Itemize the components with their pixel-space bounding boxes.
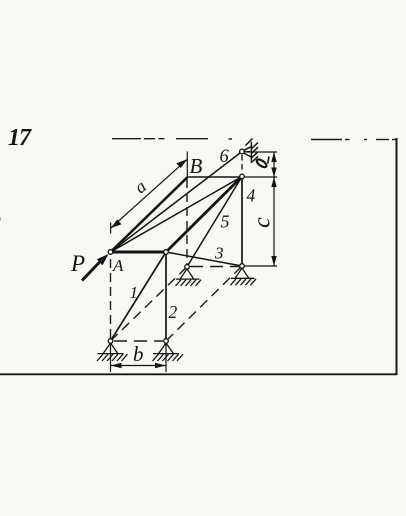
node M [164,250,169,255]
node B1 [108,339,113,344]
dashed projection T1-T2 [241,155,243,173]
page bottom border rule [0,373,397,375]
dashed ground edge B1-B2 [114,340,163,342]
svg-text:6: 6 [220,147,230,167]
left edge speck [0,217,1,221]
svg-text:a: a [131,176,150,197]
support anchor at T1 (wall link with hatching) [244,139,259,164]
dimension d line [271,152,276,177]
svg-text:17: 17 [8,125,32,151]
pin support at B2 [153,343,184,361]
node T1 [240,149,245,154]
dashed ground edge B2-S2 [166,266,242,341]
label d (rotated, drawn as shape) [256,157,269,169]
dimension a: line with arrows [111,159,188,228]
node A [108,250,113,255]
plate edge M-T2 (thick right depth edge) [166,177,242,253]
node S1 [185,265,190,270]
svg-text:5: 5 [221,212,230,232]
ceiling dashed line left part [112,138,232,140]
svg-text:b: b [133,342,144,366]
dimension b line with arrows [111,363,167,369]
dashed ground edge S1-S2 [190,266,239,268]
pin support at B1 [97,343,128,361]
ceiling dashed line right part [311,139,396,141]
node S2 [240,264,245,269]
plate edge B-T2 (thin back edge) [187,176,242,178]
svg-text:c: c [250,217,276,228]
dimension c line [271,177,276,266]
svg-text:4: 4 [247,186,256,206]
svg-text:2: 2 [169,302,178,322]
pin support at S1 [176,269,202,286]
node T2 [240,174,245,179]
dimension a: extension line above B [186,152,188,178]
dimension b extension lines [110,343,112,372]
plate edge A-B (thick left depth edge) [111,177,188,252]
dashed projection B-S1 [186,179,188,264]
rod 3 M-S2 [166,252,242,266]
pin support at S2 [231,268,257,285]
dimension a: tick above A [110,223,112,234]
dashed projection A-B1 [110,259,112,339]
dimension c,d extension lines [254,151,278,153]
svg-text:3: 3 [214,244,224,263]
svg-text:A: A [112,256,124,275]
svg-text:P: P [70,251,85,276]
plate diagonal A-T2 [111,177,243,253]
load P arrow [82,254,109,281]
svg-text:1: 1 [130,283,139,302]
svg-text:B: B [190,154,203,178]
dashed ground edge B1-S1 [111,267,188,341]
rod 1 B1-M [111,252,167,341]
rod 5 S1-T2 [187,177,242,267]
node B2 [164,339,169,344]
rod 2 B2-M vertical [165,252,167,341]
rod 6 A-T1 [111,152,243,253]
rod 4 S2-T2 vertical [241,177,243,267]
page right border rule [396,138,398,375]
plate edge A-M (thick front edge) [111,250,167,253]
